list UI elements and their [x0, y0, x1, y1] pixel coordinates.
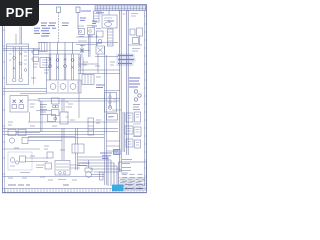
tag label small text — [62, 23, 69, 26]
left cluster F pump unit — [3, 149, 48, 173]
blue tag rows right 2 — [129, 78, 140, 87]
scattered tag marks — [8, 29, 115, 181]
top revision strip — [95, 6, 146, 11]
note text fragment blue — [80, 18, 86, 20]
T1 internal marks — [9, 52, 27, 71]
column with trays — [108, 29, 114, 46]
blue link rows right — [118, 56, 134, 64]
legend text block — [40, 105, 47, 115]
nested pipe corner bundle — [78, 157, 120, 186]
tag marks right — [132, 49, 140, 52]
inline instrument box — [39, 42, 47, 51]
branch stubs right-mid — [107, 141, 121, 151]
small boxes below bus — [48, 98, 69, 124]
small blue box — [114, 150, 121, 155]
valve V2 on top header — [76, 7, 80, 29]
valve station tubes above drum — [47, 54, 75, 80]
bottom scale band — [3, 189, 147, 193]
title block text — [122, 160, 143, 189]
header line under T1 flange — [3, 48, 40, 50]
valve V1 on top header — [57, 7, 61, 42]
blue tag near exchanger — [92, 21, 97, 26]
vessel R (right mid) — [104, 91, 120, 121]
tall narrow box center-bottom-left — [88, 118, 94, 135]
vessel T1 (left ion-exchange column) — [7, 44, 34, 85]
PDF badge — [0, 0, 39, 26]
bus below T2 — [38, 98, 120, 101]
bottom band ticks — [5, 189, 116, 193]
skid box C — [10, 96, 40, 113]
bottom small text — [8, 184, 69, 186]
left cluster E — [8, 130, 75, 144]
T1 internal tube 1 — [12, 47, 16, 82]
wire: drop from badge to vessel T1 — [16, 27, 22, 45]
striped exchanger top — [94, 11, 118, 28]
control box — [36, 98, 69, 120]
notes text block (blue) — [34, 23, 56, 36]
bottom blue label — [78, 163, 90, 166]
bottom band right ticks — [119, 191, 143, 193]
title block text — [120, 171, 145, 189]
long pipe bus N — [3, 101, 121, 160]
right stack boxes — [123, 112, 141, 152]
bottom-center vessel — [3, 152, 104, 180]
border frame — [3, 5, 147, 193]
bottom pump P2 — [85, 160, 104, 177]
blue tag near tank M — [96, 85, 105, 88]
bottom small instrument — [100, 172, 104, 180]
connecting pipes right section — [78, 46, 120, 185]
logo (cyan) — [112, 185, 124, 192]
right top cluster — [128, 28, 143, 45]
nozzle boxes right of T1 — [31, 50, 39, 62]
small tank M — [82, 75, 94, 85]
mid-bottom component cluster — [72, 128, 84, 170]
blue label mid-bottom — [100, 153, 112, 159]
title block — [119, 162, 147, 190]
small reboiler box — [96, 31, 105, 54]
header drop pipes — [50, 42, 73, 54]
link highlight right — [117, 54, 136, 67]
T2 side box — [40, 58, 50, 68]
pipe bus D — [3, 89, 47, 94]
T1 internal tube 2 — [19, 47, 23, 82]
right top corner tags — [123, 14, 139, 17]
cluster J heat exchanger group — [76, 26, 98, 58]
right main pipes (double verticals) — [120, 10, 129, 172]
horizontal drum T2 — [47, 80, 82, 93]
blue tags upper right — [81, 11, 114, 43]
valve chain — [133, 90, 141, 110]
center header bus — [3, 42, 118, 54]
